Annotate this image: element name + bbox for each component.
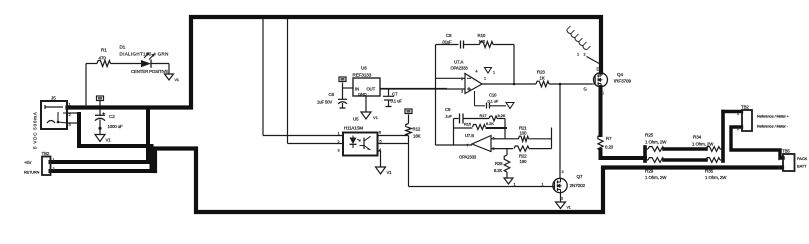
svg-text:2: 2 (338, 140, 340, 144)
svg-text:C2: C2 (109, 114, 115, 119)
svg-text:+5V: +5V (24, 160, 32, 165)
svg-text:R17: R17 (480, 113, 488, 118)
svg-text:1 Ohm, 2W: 1 Ohm, 2W (645, 140, 667, 145)
svg-text:0.20: 0.20 (605, 145, 614, 150)
svg-text:1: 1 (493, 71, 495, 75)
svg-text:0.1 uF: 0.1 uF (391, 99, 403, 104)
svg-text:.01uF: .01uF (442, 40, 453, 45)
svg-text:1: 1 (338, 132, 340, 136)
svg-text:S: S (601, 91, 604, 96)
svg-text:U7.B: U7.B (465, 133, 474, 138)
svg-text:V1: V1 (175, 78, 179, 82)
svg-text:PACK: PACK (797, 156, 808, 161)
svg-text:1: 1 (737, 112, 739, 116)
svg-text:7: 7 (467, 144, 469, 148)
svg-text:R15: R15 (464, 122, 472, 127)
svg-text:470: 470 (99, 56, 107, 61)
svg-text:.1uF: .1uF (445, 113, 453, 118)
svg-text:1 Ohm, 2W: 1 Ohm, 2W (692, 142, 714, 147)
svg-text:5 VDC 500mA: 5 VDC 500mA (33, 111, 38, 149)
svg-text:16K: 16K (413, 134, 421, 139)
svg-text:2: 2 (461, 77, 463, 81)
svg-text:R28: R28 (495, 161, 503, 166)
svg-text:OPA2333: OPA2333 (451, 66, 469, 71)
svg-text:CENTER POSITIVE: CENTER POSITIVE (131, 69, 168, 74)
svg-text:2: 2 (561, 197, 563, 201)
svg-text:C7: C7 (392, 92, 398, 97)
svg-text:0.1 uF: 0.1 uF (488, 98, 499, 103)
svg-text:3: 3 (338, 149, 340, 153)
svg-text:3: 3 (562, 170, 564, 174)
svg-text:V1: V1 (106, 138, 112, 143)
svg-text:1 Ohm, 2W: 1 Ohm, 2W (645, 175, 667, 180)
svg-text:1uF 50V: 1uF 50V (317, 100, 332, 105)
svg-text:D1: D1 (120, 45, 126, 50)
svg-text:J5: J5 (51, 96, 56, 101)
svg-text:6: 6 (379, 131, 381, 135)
svg-text:R35: R35 (705, 169, 714, 174)
svg-text:OUT: OUT (367, 87, 376, 92)
svg-text:2: 2 (584, 53, 586, 57)
svg-text:G: G (584, 87, 587, 92)
svg-text:100: 100 (520, 131, 528, 136)
svg-text:100: 100 (479, 39, 486, 44)
svg-text:R25: R25 (645, 133, 654, 138)
svg-text:R22: R22 (519, 154, 527, 159)
svg-text:TB5: TB5 (782, 149, 790, 154)
svg-text:IRF3709: IRF3709 (614, 79, 631, 84)
svg-text:C6: C6 (329, 92, 335, 97)
svg-text:8.2K: 8.2K (494, 168, 503, 173)
svg-text:R29: R29 (645, 169, 654, 174)
svg-text:REF3133: REF3133 (353, 73, 372, 78)
svg-text:2: 2 (53, 167, 55, 171)
svg-text:R7: R7 (606, 136, 612, 141)
svg-text:2: 2 (778, 166, 780, 170)
svg-text:4: 4 (476, 70, 478, 74)
svg-text:R12: R12 (413, 127, 421, 132)
svg-text:1: 1 (53, 158, 55, 162)
svg-text:RETURN: RETURN (24, 171, 40, 175)
svg-text:3: 3 (461, 90, 463, 94)
svg-text:2: 2 (737, 127, 739, 131)
svg-text:OPA2333: OPA2333 (459, 155, 477, 160)
svg-text:Reference / Meter -: Reference / Meter - (757, 125, 789, 129)
svg-text:1K: 1K (540, 76, 545, 81)
svg-text:U7.A: U7.A (454, 60, 464, 65)
svg-text:R23: R23 (537, 70, 545, 75)
svg-text:R34: R34 (693, 135, 702, 140)
svg-text:1: 1 (577, 53, 579, 57)
svg-text:U6: U6 (361, 66, 367, 71)
svg-text:1000 uF: 1000 uF (108, 124, 124, 129)
svg-text:1: 1 (484, 77, 486, 81)
svg-text:1: 1 (542, 183, 544, 187)
svg-text:GND: GND (358, 91, 367, 96)
svg-text:Q7: Q7 (577, 174, 583, 179)
svg-text:8.2K: 8.2K (486, 121, 494, 126)
svg-text:Reference / Meter +: Reference / Meter + (757, 115, 790, 119)
svg-text:BATT: BATT (797, 164, 807, 169)
svg-text:C8: C8 (446, 33, 452, 38)
svg-text:C10: C10 (489, 93, 497, 98)
svg-text:1: 1 (514, 183, 516, 187)
svg-text:TB2: TB2 (42, 151, 50, 156)
svg-text:R1: R1 (101, 48, 107, 53)
svg-text:C9: C9 (445, 107, 451, 112)
svg-text:1 Ohm, 2W: 1 Ohm, 2W (705, 175, 727, 180)
svg-text:D: D (597, 67, 600, 72)
svg-text:V1: V1 (567, 206, 571, 210)
svg-text:U5: U5 (353, 117, 359, 122)
svg-text:190: 190 (520, 159, 528, 164)
svg-text:H11A1SM: H11A1SM (344, 126, 363, 131)
svg-text:DIALIGHT180 4 GRN: DIALIGHT180 4 GRN (120, 52, 169, 57)
svg-text:2N7002: 2N7002 (570, 183, 586, 188)
svg-text:V1: V1 (387, 170, 393, 175)
svg-text:1: 1 (778, 157, 780, 161)
svg-text:8.2K: 8.2K (498, 113, 506, 118)
svg-text:TB2: TB2 (741, 105, 749, 110)
svg-text:Q4: Q4 (617, 72, 623, 77)
svg-text:R10: R10 (478, 33, 486, 38)
